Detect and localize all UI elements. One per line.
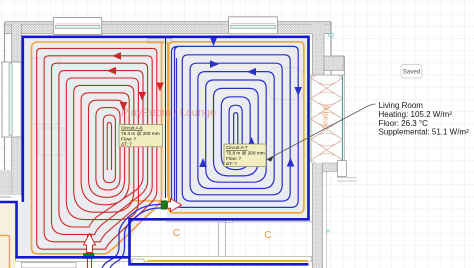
window W2 top wall bbox=[229, 17, 278, 34]
tooltip Circuit A-7 bbox=[224, 144, 266, 167]
cyan snap markers bbox=[329, 33, 334, 38]
red flow arrow 1 (left) bbox=[112, 52, 121, 60]
svg-text:75.8 m @ 200 mm: 75.8 m @ 200 mm bbox=[226, 151, 265, 156]
green wall-crossing portal right room bbox=[161, 201, 167, 209]
blue flow arrow 3 (down) bbox=[294, 87, 302, 96]
left exterior wall with hatch bbox=[0, 22, 21, 197]
blue flow arrow 2 (left) bbox=[247, 68, 256, 76]
red supply/return pipes to manifold bbox=[88, 234, 92, 268]
top-right exterior wall corner hatch bbox=[313, 22, 332, 75]
orange divider second line + conduit top bbox=[130, 42, 168, 201]
svg-text:C: C bbox=[264, 230, 271, 241]
svg-text:ΔT: ?: ΔT: ? bbox=[226, 161, 237, 166]
orange boundary right zone A-7 bbox=[169, 42, 304, 213]
svg-text:Circuit A-6: Circuit A-6 bbox=[121, 126, 143, 131]
blue heating pipe circuit A-7 spiral rings bbox=[175, 46, 299, 207]
top exterior wall with hatch bbox=[5, 22, 331, 34]
blue flow arrow 4 (up) bbox=[248, 137, 256, 146]
neighbour room fill bottom-left (cream) bbox=[0, 204, 15, 268]
svg-text:Living Room: Living Room bbox=[379, 101, 424, 110]
svg-text:Supplemental: 51.1 W/m²: Supplemental: 51.1 W/m² bbox=[379, 128, 470, 137]
bottom interior walls and C rooms bbox=[16, 219, 313, 268]
red flow arrow 5 (down) bbox=[156, 83, 164, 92]
red open entry arrow bbox=[84, 234, 96, 253]
open entry arrow right room bbox=[168, 199, 182, 212]
tooltip Circuit A-6 bbox=[119, 125, 163, 147]
grey wall stub at divider top bbox=[148, 39, 172, 44]
orange boundary neighbour room bottom-left bbox=[0, 236, 10, 268]
window W3 left wall bbox=[2, 62, 21, 137]
room fill right (Living Room) bbox=[167, 38, 308, 218]
right wall lower hatch band bbox=[313, 161, 358, 268]
svg-text:Heating: 105.2 W/m²: Heating: 105.2 W/m² bbox=[379, 110, 453, 119]
red heating pipe circuit A-6 rings bbox=[37, 48, 157, 249]
blue flow arrow 7 (down) bbox=[210, 37, 218, 46]
red flow arrow 3 (down) bbox=[120, 102, 128, 111]
thin blue divider line bbox=[165, 37, 167, 198]
svg-text:PlayRoom / Lounge: PlayRoom / Lounge bbox=[121, 107, 216, 119]
blue flow arrow 1 (right) bbox=[210, 60, 219, 68]
svg-text:Saved: Saved bbox=[403, 69, 421, 76]
annotation Living Room stats bbox=[379, 101, 470, 137]
orange boundary left zone A-6 bbox=[32, 42, 164, 254]
Saved button bbox=[401, 65, 422, 79]
right wall insulation batt channel bbox=[311, 75, 345, 163]
faint furniture ghost right room bbox=[269, 68, 303, 100]
svg-text:C: C bbox=[173, 228, 180, 239]
orange boundary bottom zone bbox=[147, 260, 308, 262]
leader line to annotation bbox=[267, 104, 376, 160]
green wall-crossing portal left room bbox=[84, 254, 95, 259]
red flow arrow 4 (down) bbox=[139, 92, 147, 101]
window W1 top wall bbox=[53, 18, 101, 35]
svg-text:Floor: 26.3 °C: Floor: 26.3 °C bbox=[379, 119, 429, 128]
svg-text:76.3 m @ 200 mm: 76.3 m @ 200 mm bbox=[121, 131, 160, 136]
blue feed lines along left edge bbox=[167, 46, 178, 207]
faint furniture outlines bbox=[33, 58, 65, 190]
blue flow arrow 6 (up) bbox=[199, 158, 207, 167]
wall step top-right bbox=[324, 22, 345, 75]
blue connection pipes through conduit bbox=[102, 205, 161, 268]
svg-text:Sealing: Sealing bbox=[321, 105, 330, 130]
svg-text:Circuit A-7: Circuit A-7 bbox=[226, 145, 248, 150]
svg-text:ΔT: ?: ΔT: ? bbox=[121, 142, 132, 147]
room fill left (PlayRoom) bbox=[17, 38, 166, 258]
red spiral center hook bbox=[107, 122, 111, 170]
blue flow arrow 5 (up) bbox=[287, 158, 295, 167]
blue spiral center hook bbox=[234, 113, 238, 150]
red flow arrow 2 (left) bbox=[107, 67, 116, 75]
thick blue zone boundary outline bbox=[0, 37, 309, 264]
